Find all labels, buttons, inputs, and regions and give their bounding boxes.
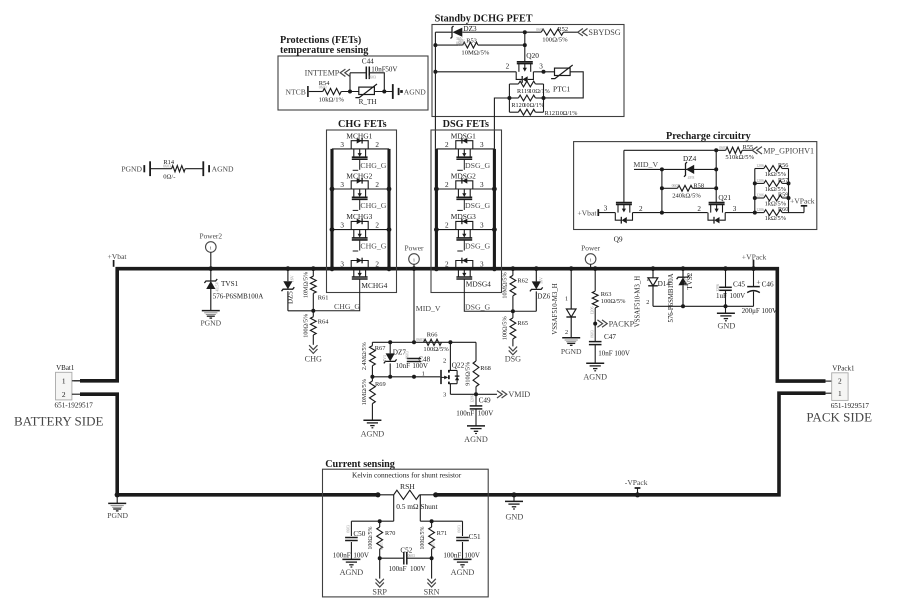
svg-text:10MΩ/5%: 10MΩ/5% <box>302 272 309 298</box>
wire network to +VPack port <box>789 212 805 214</box>
svg-text:510kΩ/5%: 510kΩ/5% <box>725 154 754 161</box>
capacitor C49 100nF 100V <box>475 394 477 406</box>
svg-text:2: 2 <box>646 299 649 306</box>
resistor network rails R119-R121 <box>508 84 510 112</box>
wire +Vbat pin stub to VBat1 pin 1 <box>74 380 81 382</box>
port MP_GPIOHV1 <box>742 149 752 151</box>
ground PGND at battery negative corner <box>115 492 120 497</box>
wire DZ3 to R52 node <box>462 31 541 33</box>
svg-text:SRP: SRP <box>372 588 387 597</box>
svg-text:2: 2 <box>565 329 568 336</box>
transistor MCHG4 <box>351 261 368 269</box>
wire +Vbat thick bus (battery positive rail) <box>80 269 826 381</box>
resistor R56 1k/5% <box>755 168 764 170</box>
port AGND (R14 row) <box>202 161 204 176</box>
resistor R55 510k/5% <box>726 147 743 153</box>
wire MID_V branch down to precharge row <box>661 169 663 212</box>
svg-text:1206: 1206 <box>756 164 764 168</box>
wire kelvin tap left <box>393 495 395 521</box>
svg-text:MDSG3: MDSG3 <box>451 212 476 221</box>
svg-text:Current sensing: Current sensing <box>325 459 395 470</box>
svg-text:3: 3 <box>480 222 484 230</box>
svg-text:3: 3 <box>604 205 608 213</box>
svg-text:10nF: 10nF <box>396 362 411 370</box>
svg-text:3: 3 <box>733 205 737 213</box>
ground GND under C45 <box>725 306 727 313</box>
svg-text:DZ5: DZ5 <box>287 291 295 304</box>
wire MDSG3 gate lead <box>463 240 465 251</box>
svg-text:2: 2 <box>445 181 449 189</box>
transistor MDSG3 <box>456 221 473 229</box>
svg-text:R64: R64 <box>318 319 329 326</box>
port CHG <box>309 345 317 353</box>
svg-text:1206: 1206 <box>756 179 764 183</box>
capacitor C44 10nF 50V <box>365 67 367 80</box>
svg-text:1: 1 <box>838 389 842 398</box>
svg-text:10MΩ/5%: 10MΩ/5% <box>361 379 368 405</box>
svg-text:1: 1 <box>422 370 425 377</box>
svg-text:0603: 0603 <box>458 43 466 47</box>
transistor MCHG3 <box>351 221 368 229</box>
svg-text:DZ6: DZ6 <box>537 293 550 301</box>
port SRP <box>379 558 381 578</box>
capacitor C51 100nF 100V <box>462 521 464 536</box>
ground AGND under C47 <box>586 362 604 364</box>
TVS diode TVS1 576-P6SMB100A <box>210 269 212 281</box>
svg-text:MP_GPIOHV1: MP_GPIOHV1 <box>763 146 814 155</box>
svg-text:100nF: 100nF <box>443 552 461 560</box>
svg-text:3: 3 <box>480 141 484 149</box>
svg-text:C45: C45 <box>733 280 745 288</box>
wire Q21 to resistor network <box>725 212 755 214</box>
svg-text:2: 2 <box>445 141 449 149</box>
svg-text:CHG: CHG <box>305 355 322 364</box>
svg-text:R62: R62 <box>517 277 528 284</box>
transistor MCHG1 <box>351 141 368 149</box>
svg-text:MCHG2: MCHG2 <box>346 172 372 181</box>
svg-text:10Ω/1%: 10Ω/1% <box>523 102 544 109</box>
svg-text:100Ω/5%: 100Ω/5% <box>302 314 309 338</box>
svg-text:43.5V: 43.5V <box>215 282 220 292</box>
svg-text:100Ω/5%: 100Ω/5% <box>368 526 374 549</box>
wire mid rail (node 1) <box>372 376 440 378</box>
svg-text:2: 2 <box>62 390 66 399</box>
wire VMID row <box>450 393 497 395</box>
svg-text:MCHG3: MCHG3 <box>346 212 372 221</box>
svg-text:BATTERY SIDE: BATTERY SIDE <box>14 413 103 428</box>
box Standby DCHG PFET <box>432 25 624 117</box>
resistor R66 100R/5% <box>424 339 442 345</box>
svg-text:VBat1: VBat1 <box>56 364 75 372</box>
svg-text:Q9: Q9 <box>614 235 623 244</box>
box Current sensing <box>323 469 489 597</box>
wire MID_V top rail <box>372 341 476 343</box>
svg-text:+VPack: +VPack <box>790 197 815 206</box>
svg-text:4V1: 4V1 <box>382 355 387 362</box>
svg-text:C44: C44 <box>362 58 374 66</box>
TVS diode TVS2 576-P6SMB100A <box>681 266 686 271</box>
port SBYDSG <box>578 29 588 36</box>
svg-text:DSG_G: DSG_G <box>465 161 490 170</box>
transistor Q21 <box>709 202 725 204</box>
wire DSG stack left bus <box>435 149 438 269</box>
zener DZ5 16V <box>286 266 291 271</box>
svg-text:Power: Power <box>581 243 600 252</box>
svg-text:CHG_G: CHG_G <box>360 242 386 251</box>
svg-text:0603: 0603 <box>536 28 544 32</box>
resistor R119 10R/1% <box>509 83 518 85</box>
svg-text:1: 1 <box>646 276 649 283</box>
svg-text:NTCB: NTCB <box>286 88 306 97</box>
svg-text:R58: R58 <box>693 182 704 189</box>
connector VPack1 651-1929517 <box>832 373 848 401</box>
wire VPack1 pin 2 stub <box>824 380 832 382</box>
connector VBat1 651-1929517 <box>56 372 72 400</box>
svg-text:DSG FETs: DSG FETs <box>443 119 489 130</box>
wire R53 to gate rail <box>478 44 525 46</box>
svg-text:INTTEMP: INTTEMP <box>305 69 340 78</box>
svg-text:3: 3 <box>480 261 484 269</box>
svg-text:100V: 100V <box>464 552 480 560</box>
wire standby left rail down to DSG stack <box>434 32 436 149</box>
node DSG_G wire MDSG4 gate to DZ6 <box>464 279 536 311</box>
capacitor C50 100nF 100V <box>350 521 352 536</box>
svg-text:AGND: AGND <box>340 568 364 577</box>
power flag Power2 <box>206 242 217 253</box>
svg-text:0603: 0603 <box>719 146 727 150</box>
svg-text:-VPack: -VPack <box>625 478 648 487</box>
svg-text:2: 2 <box>445 222 449 230</box>
wire SRP row with capacitor C52 <box>380 557 404 559</box>
svg-text:DZ7: DZ7 <box>393 349 407 357</box>
svg-text:AGND: AGND <box>451 568 475 577</box>
transistor MDSG1 <box>456 141 473 149</box>
resistor R58 240k/5% <box>662 187 678 189</box>
zener DZ7 4V1 <box>389 342 391 353</box>
transistor Q9 <box>616 202 632 204</box>
wire CHG row 3 <box>332 229 389 231</box>
svg-text:1206: 1206 <box>716 284 720 292</box>
resistor network rails R56-R60 <box>754 169 756 213</box>
svg-text:2: 2 <box>375 261 379 269</box>
svg-text:16V: 16V <box>290 275 295 282</box>
svg-text:200μF 100V: 200μF 100V <box>742 307 777 315</box>
resistor R67 2.4M/5% <box>371 342 373 345</box>
svg-text:PGND: PGND <box>200 319 221 328</box>
svg-text:VSSAF510-M3_H: VSSAF510-M3_H <box>552 283 559 334</box>
svg-text:C46: C46 <box>762 280 774 288</box>
svg-text:Kelvin connections for shunt r: Kelvin connections for shunt resistor <box>352 471 462 480</box>
wire CHG row 1 <box>332 148 389 150</box>
svg-text:16V: 16V <box>538 277 543 284</box>
svg-text:AGND: AGND <box>212 165 234 174</box>
svg-text:R61: R61 <box>318 294 329 301</box>
svg-text:651-1929517: 651-1929517 <box>55 402 94 410</box>
wire PTC1 return loop <box>544 72 584 98</box>
ground AGND under R69 <box>363 419 381 421</box>
svg-text:C49: C49 <box>479 396 491 404</box>
svg-text:3: 3 <box>340 261 344 269</box>
svg-text:DZ4: DZ4 <box>683 155 697 163</box>
transistor Q22 <box>440 370 442 384</box>
svg-text:R53: R53 <box>466 38 477 45</box>
svg-text:R67: R67 <box>375 345 386 352</box>
wire DSG row 3 <box>436 229 494 231</box>
svg-text:10Ω/1%: 10Ω/1% <box>557 110 578 117</box>
resistor R53 10M/5% <box>435 44 462 46</box>
node CHG_G wire to MCHG4 gate <box>313 279 359 311</box>
svg-text:2: 2 <box>375 181 379 189</box>
port VMID <box>497 391 507 398</box>
svg-text:+Vbat: +Vbat <box>577 209 597 218</box>
svg-text:C50: C50 <box>353 530 365 538</box>
svg-text:CHG_G: CHG_G <box>360 201 386 210</box>
resistor R65 100R/5% <box>512 311 514 318</box>
svg-text:100V: 100V <box>730 292 746 300</box>
svg-text:2: 2 <box>838 377 842 386</box>
wire Q9 gate to top rail <box>623 150 625 202</box>
svg-text:240kΩ/5%: 240kΩ/5% <box>672 193 701 200</box>
box DSG FETs <box>431 130 502 293</box>
wire DSG row 2 <box>436 188 494 190</box>
wire bottom bus right of shunt <box>436 393 826 495</box>
capacitor C46 200uF 100V polarized <box>751 266 756 271</box>
svg-text:SRN: SRN <box>424 588 440 597</box>
svg-text:2: 2 <box>697 205 701 213</box>
svg-text:100V: 100V <box>478 410 494 418</box>
zener DZ4 4V8 <box>684 162 687 177</box>
svg-text:R65: R65 <box>517 320 528 327</box>
wire C44 right branch <box>370 73 385 92</box>
svg-text:1: 1 <box>565 295 568 302</box>
svg-text:C51: C51 <box>469 533 481 541</box>
svg-text:10kΩ/1%: 10kΩ/1% <box>319 97 345 104</box>
wire MDSG2 gate lead <box>463 199 465 210</box>
wire R_TH to AGND port <box>374 91 392 93</box>
resistor R61 10M/5% <box>311 266 316 271</box>
svg-text:+: + <box>756 277 760 286</box>
svg-text:R68: R68 <box>480 365 491 372</box>
svg-text:2: 2 <box>375 222 379 230</box>
transistor MDSG4 <box>456 261 473 269</box>
resistor R14 0R <box>172 166 186 172</box>
svg-text:R66: R66 <box>427 332 438 339</box>
svg-text:+Vbat: +Vbat <box>108 252 128 261</box>
wire Q20 source to left rail <box>435 71 516 73</box>
svg-text:910Ω/5%: 910Ω/5% <box>465 362 472 386</box>
ground GND on bottom bus <box>511 492 516 497</box>
svg-text:0603: 0603 <box>405 351 409 359</box>
wire node up to INTTEMP row <box>349 73 351 92</box>
wire DSG stack right bus <box>493 149 496 269</box>
box CHG FETs <box>327 130 397 293</box>
svg-text:3: 3 <box>340 222 344 230</box>
svg-text:100V: 100V <box>410 565 426 573</box>
svg-text:0603: 0603 <box>672 184 680 188</box>
svg-text:Q20: Q20 <box>526 51 539 60</box>
wire R54 to node <box>341 91 359 93</box>
svg-text:RSH: RSH <box>400 482 415 491</box>
svg-text:CHG_G: CHG_G <box>360 161 386 170</box>
svg-text:100Ω/5%: 100Ω/5% <box>502 316 509 340</box>
svg-text:VMID: VMID <box>508 390 530 399</box>
wire battery negative to bottom bus <box>80 394 378 495</box>
transistor MDSG2 <box>456 181 473 189</box>
resistor R121 10R/1% <box>509 111 518 113</box>
svg-text:MDSG2: MDSG2 <box>451 172 476 181</box>
diode D14 VSSAF510-M3_H <box>651 266 656 271</box>
wire DSG row 1 <box>436 148 494 150</box>
transistor MCHG2 <box>351 181 368 189</box>
wire precharge top rail <box>624 149 726 151</box>
resistor R57 1k/5% <box>755 182 764 184</box>
svg-text:MID_V: MID_V <box>416 304 441 313</box>
svg-text:43.5V: 43.5V <box>683 276 688 286</box>
svg-text:2.4MΩ/5%: 2.4MΩ/5% <box>361 342 368 370</box>
svg-text:1206: 1206 <box>471 395 475 403</box>
ground AGND under C51 <box>454 558 472 560</box>
svg-text:0603: 0603 <box>458 525 462 533</box>
capacitor C45 1uF 100V <box>723 266 728 271</box>
wire right sense rail <box>420 520 462 522</box>
svg-text:DSG: DSG <box>505 354 521 363</box>
svg-text:2: 2 <box>506 62 510 70</box>
transistor Q20 <box>517 61 533 63</box>
svg-text:PGND: PGND <box>561 347 582 356</box>
wire R120 row to DSG gate bus <box>494 98 509 149</box>
wire DZ5 to CHG_G node <box>288 310 313 312</box>
svg-text:AGND: AGND <box>361 430 385 439</box>
wire Q20 gate rail <box>524 32 526 61</box>
wire PGND port to R14 <box>151 168 172 170</box>
svg-text:3: 3 <box>480 181 484 189</box>
svg-text:0603: 0603 <box>380 542 384 549</box>
svg-text:2: 2 <box>443 358 446 365</box>
resistor R64 100R/5% <box>312 311 314 317</box>
svg-text:0603: 0603 <box>432 542 436 549</box>
diode D15 VSSAF510-M3_H <box>569 266 574 271</box>
port SRN <box>431 558 433 578</box>
svg-text:0603: 0603 <box>368 75 376 79</box>
svg-text:2: 2 <box>375 141 379 149</box>
svg-text:VSSAF510-M3_H: VSSAF510-M3_H <box>634 276 641 327</box>
svg-text:DSG_G: DSG_G <box>465 242 490 251</box>
ground AGND under C49 <box>467 425 485 427</box>
wire INTTEMP node to C44 <box>350 72 366 74</box>
resistor R71 100R/5% <box>431 521 433 527</box>
svg-text:Standby DCHG PFET: Standby DCHG PFET <box>435 14 533 25</box>
port PACKP <box>593 322 597 326</box>
svg-text:100V: 100V <box>353 552 369 560</box>
svg-text:Power2: Power2 <box>200 231 223 240</box>
svg-text:0603: 0603 <box>163 164 171 168</box>
svg-text:GND: GND <box>718 322 736 331</box>
svg-text:3: 3 <box>340 181 344 189</box>
svg-text:MCHG1: MCHG1 <box>346 132 372 141</box>
svg-text:PGND: PGND <box>121 165 142 174</box>
svg-text:100Ω/5%: 100Ω/5% <box>542 36 568 43</box>
box Precharge circuitry <box>574 142 817 230</box>
svg-text:0.5 mΩ Shunt: 0.5 mΩ Shunt <box>396 502 438 511</box>
resistor R59 1k/5% <box>755 197 764 199</box>
svg-text:PACKP: PACKP <box>609 320 635 329</box>
svg-text:R_TH: R_TH <box>359 98 377 106</box>
shunt resistor RSH 0.5mOhm <box>394 490 420 499</box>
port DSG <box>509 347 517 355</box>
svg-text:AGND: AGND <box>404 88 426 97</box>
resistor R70 100R/5% <box>379 521 381 527</box>
svg-text:MCHG4: MCHG4 <box>361 281 387 290</box>
svg-text:R69: R69 <box>375 381 386 388</box>
wire Q20 drain to PTC1 <box>533 71 554 73</box>
svg-text:SBYDSG: SBYDSG <box>588 28 620 37</box>
ground AGND under C50 <box>342 558 360 560</box>
svg-text:MDSG4: MDSG4 <box>466 280 491 289</box>
svg-text:1206: 1206 <box>591 307 595 315</box>
wire Q22 drain <box>449 342 451 370</box>
capacitor C48 10nF 100V <box>407 358 421 360</box>
ground PGND under TVS1 <box>202 310 220 312</box>
resistor R120 10R/1% <box>509 97 518 99</box>
svg-text:100V: 100V <box>412 362 428 370</box>
wire MCHG3 gate lead <box>359 240 361 251</box>
svg-text:temperature sensing: temperature sensing <box>280 45 368 56</box>
svg-text:10Ω/1%: 10Ω/1% <box>529 88 550 95</box>
wire kelvin tap right <box>419 495 421 521</box>
svg-text:CHG FETs: CHG FETs <box>338 119 387 130</box>
svg-text:3: 3 <box>340 141 344 149</box>
svg-text:100Ω/5%: 100Ω/5% <box>601 298 626 305</box>
wire NTCB to R54 <box>309 91 323 93</box>
wire R14 to AGND port <box>185 168 203 170</box>
resistor R68 910R/5% <box>475 342 477 361</box>
capacitor C47 10nF 100V <box>589 341 602 343</box>
resistor R52 100R/5% <box>541 29 563 35</box>
svg-text:0603: 0603 <box>347 525 351 533</box>
thermistor R_TH <box>359 87 375 94</box>
junction dots DSG stack <box>434 187 439 192</box>
svg-text:VPack1: VPack1 <box>832 365 855 373</box>
wire Q9 to Q21 row <box>633 212 708 214</box>
wire VPack1 pin 1 stub <box>824 392 832 394</box>
resistor R63 100R/5% <box>593 266 598 271</box>
wire gate rail down to Q21 <box>715 150 717 202</box>
svg-text:10MΩ/5%: 10MΩ/5% <box>461 49 489 56</box>
port AGND (protections) <box>392 84 394 99</box>
svg-text:0603: 0603 <box>319 86 327 90</box>
svg-text:C47: C47 <box>604 333 616 341</box>
svg-text:100nF: 100nF <box>389 565 407 573</box>
svg-text:1206: 1206 <box>756 193 764 197</box>
svg-text:R60: R60 <box>778 206 788 213</box>
box Protections (FETs) temperature sensing <box>278 56 428 110</box>
power flag Power (pack) <box>585 254 596 265</box>
svg-text:R71: R71 <box>437 530 447 537</box>
wire MID_V vertical <box>413 269 415 343</box>
svg-text:GND: GND <box>506 513 524 522</box>
svg-text:Q22: Q22 <box>452 361 465 370</box>
wire Q22 source <box>449 384 451 395</box>
wire MDSG1 gate lead <box>463 159 465 170</box>
svg-text:100nF: 100nF <box>333 552 351 560</box>
wire CHG stack left bus <box>330 149 333 269</box>
svg-text:Q21: Q21 <box>718 193 731 202</box>
junction dots CHG stack <box>330 187 335 192</box>
svg-text:PTC1: PTC1 <box>553 84 571 93</box>
svg-text:TVS1: TVS1 <box>221 280 239 288</box>
resistor R69 10M/5% <box>371 377 373 381</box>
svg-text:0603: 0603 <box>408 554 415 558</box>
